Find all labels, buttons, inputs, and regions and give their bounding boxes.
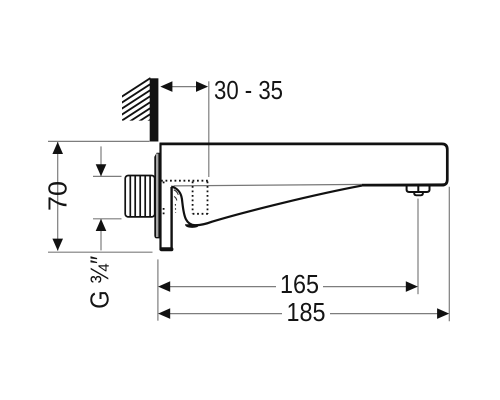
- svg-text:70: 70: [43, 181, 73, 211]
- svg-text:165: 165: [280, 269, 319, 299]
- svg-text:185: 185: [287, 297, 326, 327]
- svg-text:G ¾″: G ¾″: [85, 256, 115, 309]
- svg-text:30 - 35: 30 - 35: [214, 75, 283, 105]
